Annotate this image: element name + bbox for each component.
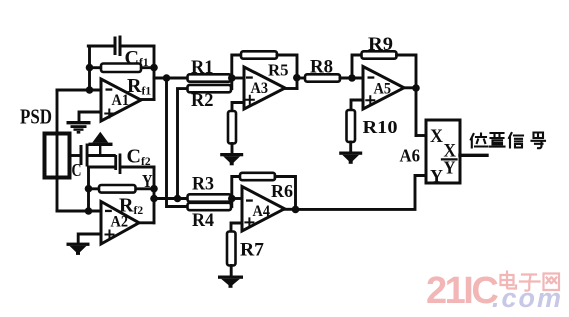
- op-amp A5: [363, 67, 404, 110]
- svg-text:R6: R6: [271, 181, 293, 201]
- label Rf1: [127, 75, 151, 98]
- svg-text:A3: A3: [251, 80, 269, 97]
- svg-text:PSD: PSD: [20, 105, 52, 129]
- svg-text:R10: R10: [363, 117, 398, 137]
- ground below R10: [339, 152, 362, 164]
- bias arrow symbol at PSD common node: [89, 132, 113, 156]
- resistor R9: [362, 51, 397, 58]
- node A1 inverting input junction: [86, 86, 94, 94]
- node Rf2 right: [150, 185, 158, 193]
- wire A3 feedback right down: [277, 55, 297, 89]
- wire A1 feedback top right segment: [122, 45, 155, 48]
- svg-text:Y: Y: [444, 158, 456, 178]
- wire A1 feedback top left segment: [88, 45, 113, 48]
- wire R8 to A5 inverting input: [340, 77, 363, 80]
- wire PSD bottom electrode to A2 inverting input: [57, 210, 101, 213]
- node Rf1 left: [86, 64, 94, 72]
- resistor R3: [188, 194, 232, 201]
- node A3 output node: [293, 74, 301, 82]
- svg-text:A6: A6: [400, 146, 421, 166]
- node A4 output node: [292, 206, 300, 214]
- wire R10 to ground: [349, 142, 352, 152]
- wire X branch down to R4 left: [167, 78, 188, 207]
- wire to A4 inverting input: [232, 197, 242, 200]
- wire A1 feedback left vertical: [88, 46, 91, 90]
- node A2 inverting input junction: [85, 207, 93, 215]
- wire PSD to capacitor C: [70, 154, 80, 157]
- resistor R5: [241, 51, 277, 58]
- watermark 电子网 (hand-drawn glyphs): [501, 272, 560, 291]
- resistor R8: [305, 74, 340, 81]
- svg-text:R2: R2: [191, 90, 214, 111]
- wire R7 to ground: [230, 266, 233, 276]
- wire A3 non-inverting input down: [232, 103, 244, 112]
- resistor Rf2: [99, 185, 136, 193]
- capacitor Cf2: [114, 154, 121, 175]
- wire PSD common vertical (through body): [56, 90, 59, 211]
- wire PSD top electrode to A1 inverting input: [57, 89, 101, 92]
- wire A5 output to feedback node: [404, 86, 416, 89]
- wire A5 feedback up-left: [352, 55, 362, 78]
- svg-text:f1: f1: [142, 86, 152, 98]
- wire A2 feedback left vertical: [87, 167, 90, 211]
- wire Rf1 stubs: [90, 66, 155, 69]
- wire resistor to ground: [231, 144, 234, 154]
- svg-text:R4: R4: [192, 210, 214, 231]
- wire A1 feedback right vertical: [153, 46, 156, 100]
- svg-text:Y: Y: [142, 171, 153, 191]
- wire A5 feedback right and down to A6 X input: [397, 55, 417, 136]
- node A5 summing node: [348, 74, 356, 82]
- label Rf2: [119, 195, 143, 218]
- node A3 summing node: [228, 74, 236, 82]
- wire A2 output to feedback node: [139, 221, 154, 224]
- wire A5 output to A6 X input: [416, 134, 426, 137]
- wire A2 non-inverting input to ground: [78, 234, 101, 243]
- label Cf1: [125, 47, 149, 69]
- svg-text:A2: A2: [111, 213, 129, 230]
- op-amp A4: [242, 187, 285, 232]
- capacitor Cf1: [114, 36, 122, 57]
- node A4 summing node: [228, 195, 236, 203]
- node Rf1 right: [150, 64, 158, 72]
- wire R2 left down to Y line: [178, 89, 188, 199]
- wire A5 non-inverting input down: [351, 100, 363, 110]
- label Cf2: [127, 146, 151, 169]
- wire Rf2 stubs: [89, 187, 155, 190]
- svg-text:X: X: [430, 126, 443, 147]
- wire Y line A2 output to R3: [154, 197, 188, 200]
- resistor at A3 non-inverting input: [228, 111, 236, 144]
- wire A4 non-inverting input down: [231, 223, 242, 232]
- svg-text:R1: R1: [191, 57, 214, 78]
- op-amp A1: [101, 79, 141, 121]
- svg-text:C: C: [127, 146, 141, 168]
- node A5 output node: [412, 84, 420, 92]
- node Y branch upper: [150, 195, 158, 203]
- svg-text:A5: A5: [374, 81, 392, 98]
- svg-text:21IC: 21IC: [426, 270, 498, 312]
- svg-text:R8: R8: [310, 57, 333, 78]
- ground at A1 non-inverting input: [67, 121, 91, 134]
- wire A2 feedback top right segment: [121, 166, 154, 169]
- svg-text:R3: R3: [192, 174, 214, 195]
- divider U A6 body: [426, 120, 460, 183]
- svg-text:f2: f2: [134, 205, 144, 217]
- wire A4 feedback right down: [275, 177, 296, 210]
- resistor R1: [188, 74, 232, 81]
- resistor R2: [188, 85, 232, 92]
- resistor R10: [347, 110, 356, 142]
- capacitor C: [80, 144, 89, 167]
- svg-text:R7: R7: [240, 240, 265, 261]
- resistor R7: [227, 232, 236, 266]
- ground below R7: [218, 276, 243, 288]
- wire A2 feedback top left segment: [89, 166, 115, 169]
- resistor Rf1: [101, 64, 141, 73]
- node Rf2 left: [85, 185, 93, 193]
- wire A3 output to feedback node: [285, 87, 297, 90]
- wire to A3 inverting input: [232, 77, 244, 80]
- node X branch: [163, 74, 171, 82]
- svg-text:C: C: [72, 160, 82, 180]
- wire C to Cf2 / bias node: [89, 154, 115, 157]
- ground at A2 non-inverting input: [67, 243, 90, 255]
- svg-text:Y: Y: [430, 166, 443, 186]
- wire A2 feedback right vertical: [153, 167, 156, 223]
- svg-text:R5: R5: [268, 61, 289, 80]
- PSD body: [45, 134, 70, 178]
- wire R3/R4 right join: [230, 199, 233, 207]
- svg-text:A4: A4: [253, 203, 271, 220]
- wire A3 output to R8: [297, 77, 305, 80]
- resistor R6: [240, 173, 275, 180]
- wire A6 output: [460, 154, 487, 157]
- wire X line A1 output to R1: [154, 77, 188, 80]
- wire A1 output to feedback node: [141, 98, 154, 101]
- wire A4 output to feedback node: [285, 208, 296, 211]
- ground below A3 input resistor: [220, 153, 243, 165]
- wire A4 feedback up-left: [232, 177, 240, 199]
- node Y branch to R2: [174, 195, 182, 203]
- resistor R4: [188, 203, 232, 210]
- wire R1/R2 right join: [230, 78, 233, 89]
- svg-text:.com: .com: [492, 283, 563, 313]
- svg-text:A1: A1: [112, 92, 130, 109]
- op-amp A3: [244, 67, 285, 109]
- wire A3 feedback up-left: [232, 55, 241, 78]
- label X/Y function: [442, 141, 457, 178]
- wire A1 non-inverting input to ground: [79, 112, 101, 121]
- svg-text:R9: R9: [368, 34, 393, 55]
- wire A4 output to A6 Y input: [296, 176, 427, 210]
- label output 位置信号 (position signal): [471, 133, 545, 149]
- op-amp A2: [101, 202, 139, 245]
